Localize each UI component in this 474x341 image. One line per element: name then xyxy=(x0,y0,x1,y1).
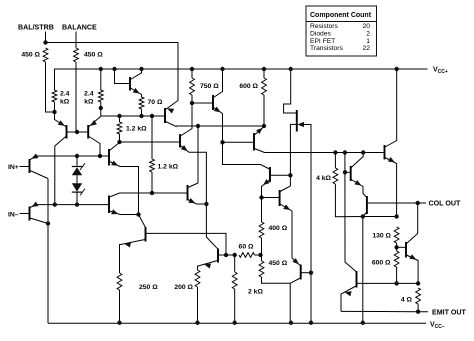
transistor Q22 base line xyxy=(357,282,397,284)
transistor Q13 emitter arrow xyxy=(256,128,263,134)
junction dot VCC- rail at 250 xyxy=(117,321,121,325)
transistor Q3 base leg xyxy=(115,69,130,84)
transistor Q8 emitter arrow xyxy=(111,161,118,166)
transistor Q18 emitter arrow xyxy=(355,180,362,186)
resistor R7 label xyxy=(158,164,179,171)
junction dot VCC+ rail at 600 ohm xyxy=(262,67,266,71)
junction dot VCC- rail at gate xyxy=(309,321,313,325)
label VCC+ xyxy=(433,67,448,76)
node BAL/STRB label xyxy=(18,24,54,32)
svg-text:Transistors: Transistors xyxy=(310,45,343,52)
wire diode top xyxy=(76,156,78,167)
svg-text:70 Ω: 70 Ω xyxy=(148,99,163,106)
svg-text:130 Ω: 130 Ω xyxy=(372,233,391,240)
junction dot Q21 emitter node xyxy=(394,214,398,218)
transistor Q17 emitter xyxy=(290,278,300,283)
svg-text:600 Ω: 600 Ω xyxy=(372,260,391,267)
transistor Q12 bar xyxy=(217,249,219,263)
transistor Q21 bar xyxy=(384,145,386,160)
transistor Q4 IN+ bar xyxy=(29,159,31,173)
transistor Q4 collector xyxy=(30,171,48,179)
wire BALANCE pin drop xyxy=(75,32,77,49)
wire 450 bottom corner xyxy=(262,277,291,283)
transistor Q11 emitter arrow xyxy=(188,198,195,203)
transistor Q19 emitter xyxy=(363,213,367,324)
transistor Q9 bar xyxy=(108,196,110,214)
resistor R16 label xyxy=(316,175,331,182)
resistor R4 2.4k body xyxy=(98,90,103,102)
junction dot Q18 base tap xyxy=(343,170,347,174)
svg-text:1.2 kΩ: 1.2 kΩ xyxy=(126,126,147,133)
transistor Q9 emitter xyxy=(110,211,139,215)
wire 4ohm bottom xyxy=(417,304,419,312)
resistor R9 label xyxy=(239,83,258,90)
transistor Q17 base xyxy=(301,272,311,274)
wire R11 bottom xyxy=(197,287,199,323)
junction dot VCC+ rail at 750 ohm xyxy=(190,67,194,71)
transistor Q17 feed xyxy=(292,258,300,266)
svg-text:22: 22 xyxy=(363,45,371,52)
wire 450 link xyxy=(261,255,263,261)
resistor R17 130 ohm body xyxy=(394,227,399,243)
fet Q16 drain lead xyxy=(284,69,297,113)
transistor Q22 bar xyxy=(356,271,358,288)
svg-text:IN–: IN– xyxy=(8,212,19,219)
diode D2 body xyxy=(72,183,85,195)
transistor Q17 feed arrow xyxy=(292,258,299,264)
transistor Q5 emitter arrow xyxy=(214,107,221,113)
transistor Q19 base xyxy=(367,202,417,204)
svg-text:1: 1 xyxy=(366,38,370,45)
transistor Q14 emitter xyxy=(262,180,270,198)
transistor Q13 bar xyxy=(253,133,255,151)
resistor R4 label xyxy=(84,91,94,106)
transistor Q21 emitter arrow xyxy=(388,157,395,163)
junction dot VCC- rail at Q19 emitter xyxy=(361,321,365,325)
wire 400 bottom xyxy=(261,238,263,255)
wire COL OUT drop xyxy=(417,203,419,234)
wire VCC+ rail xyxy=(55,69,428,90)
wire R1 bottom to balance node xyxy=(46,62,55,112)
resistor R19 label xyxy=(401,297,413,304)
transistor Q5i emitter xyxy=(30,205,37,208)
transistor Q8 emitter xyxy=(110,162,139,215)
junction dot 60ohm left xyxy=(233,253,237,257)
transistor Q2 collector xyxy=(89,137,100,157)
wire Q6 base line xyxy=(101,115,165,117)
node COL OUT label xyxy=(429,200,461,208)
junction dot 60ohm right xyxy=(258,253,262,257)
transistor Q1 emitter xyxy=(55,112,66,127)
svg-text:750 Ω: 750 Ω xyxy=(200,83,219,90)
svg-text:IN+: IN+ xyxy=(8,164,19,171)
wire y283 right xyxy=(397,282,419,284)
junction dot VCC- rail at Q17 xyxy=(289,321,293,325)
junction dot VCC+ rail at Q3 base leg xyxy=(112,67,116,71)
transistor Q18 emitter xyxy=(351,180,366,198)
wire diode bottom xyxy=(76,192,78,205)
transistor Q6 collector xyxy=(166,122,177,127)
transistor Q14 bar xyxy=(269,167,271,182)
junction dot VCC- rail at 2k xyxy=(233,321,237,325)
junction dot Q17 base xyxy=(309,271,313,275)
transistor Q13 base xyxy=(223,141,254,143)
resistor R9 600 ohm body xyxy=(262,78,267,95)
transistor Q22 emitter arrow xyxy=(345,291,352,296)
svg-text:2 kΩ: 2 kΩ xyxy=(248,289,263,296)
fet Q16 source lead xyxy=(290,124,296,175)
junction dot x291 node xyxy=(288,173,292,177)
svg-text:400 Ω: 400 Ω xyxy=(269,225,288,232)
transistor Q5i collector xyxy=(30,218,48,224)
junction dot balance-left node xyxy=(52,110,56,114)
resistor R13 2k body xyxy=(232,272,237,289)
junction dot Q5 base node xyxy=(190,101,194,105)
wire Q5i emitter line xyxy=(37,204,109,206)
wire IN+ collector drop xyxy=(47,179,49,324)
transistor Q9 emitter arrow xyxy=(111,209,118,214)
wire VCC- rail xyxy=(48,322,426,324)
wire EMIT OUT line xyxy=(341,310,428,312)
transistor Q20 bar xyxy=(405,242,407,258)
junction dot VCC+ rail at FET drain xyxy=(289,67,293,71)
transistor Q8 collector xyxy=(110,143,120,151)
transistor Q18 bar xyxy=(350,166,352,181)
svg-text:EPI FET: EPI FET xyxy=(310,38,335,45)
transistor Q14 base xyxy=(271,174,291,176)
fet Q16 channel bar xyxy=(296,110,298,132)
svg-text:Diodes: Diodes xyxy=(310,31,331,38)
resistor R12 60 ohm body xyxy=(239,253,255,258)
transistor Q17 bar xyxy=(300,265,302,280)
junction dot Q2 collector node xyxy=(98,154,102,158)
transistor Q6 emitter arrow xyxy=(167,108,174,113)
wire R7 bottom xyxy=(151,172,153,193)
transistor Q3 emitter xyxy=(131,88,142,97)
wire x345 column xyxy=(345,153,356,272)
svg-text:450 Ω: 450 Ω xyxy=(84,52,103,59)
svg-text:2: 2 xyxy=(366,31,370,38)
resistor R14 label xyxy=(269,225,288,232)
resistor R1 450 ohm body xyxy=(43,48,48,62)
transistor Q18 base xyxy=(345,171,350,173)
transistor Q11 bar xyxy=(187,185,189,201)
resistor R10 250 ohm body xyxy=(117,273,122,290)
resistor R2 label xyxy=(84,52,103,59)
wire Q7 base line xyxy=(120,141,180,143)
svg-text:Resistors: Resistors xyxy=(310,23,339,30)
resistor R18 600 ohm body xyxy=(394,251,399,267)
junction dot diode bottom xyxy=(75,202,79,206)
node IN+ label xyxy=(8,164,19,171)
resistor R6 1.2k body xyxy=(117,122,122,134)
svg-text:COL OUT: COL OUT xyxy=(429,200,461,208)
junction dot Q14 base node xyxy=(259,195,263,199)
transistor Q5 collector xyxy=(214,69,223,98)
junction dot 4ohm top xyxy=(416,281,420,285)
transistor Q10 base xyxy=(146,233,226,255)
svg-text:600 Ω: 600 Ω xyxy=(239,83,258,90)
junction dot balance-right node xyxy=(99,106,103,110)
junction dot x345 top xyxy=(343,150,347,154)
transistor Q11 emitter xyxy=(188,200,206,205)
transistor Q5 emitter xyxy=(214,108,223,127)
wire y152 long line xyxy=(265,152,385,154)
wire 600a top xyxy=(263,69,265,78)
wire Q6 collector line y126 xyxy=(176,125,264,127)
transistor Q1 mirror-left bar xyxy=(66,125,68,139)
svg-text:20: 20 xyxy=(363,23,371,30)
wire R5 bottom xyxy=(141,109,143,116)
transistor Q22 emitter xyxy=(341,286,356,311)
wire R4 bottom xyxy=(100,102,102,108)
junction dot y126 x198 xyxy=(196,124,200,128)
transistor Q2 emitter xyxy=(89,108,101,127)
transistor Q7 emitter arrow xyxy=(181,145,188,151)
svg-text:4 kΩ: 4 kΩ xyxy=(316,175,331,182)
wire strobe drop x198 xyxy=(197,126,199,183)
resistor R12 label xyxy=(239,244,254,251)
transistor Q1 emitter arrow xyxy=(58,120,65,126)
junction dot 1.2k R6 top xyxy=(117,114,121,118)
junction dot diode top xyxy=(75,154,79,158)
wire BAL/STRB pin drop xyxy=(45,32,47,43)
transistor Q5i IN- bar xyxy=(29,207,31,221)
transistor Q2 mirror-right bar xyxy=(87,125,89,139)
transistor Q10 bar xyxy=(145,227,147,242)
transistor Q14 emitter arrow xyxy=(263,179,270,185)
junction dot VCC+ rail at 2.4k R4 xyxy=(99,67,103,71)
junction dot Q1 collector join xyxy=(53,202,57,206)
transistor Q21 emitter xyxy=(385,158,397,217)
resistor R7 1.2k body xyxy=(150,159,155,172)
resistor R6 label xyxy=(126,126,147,133)
junction dot R7 bottom xyxy=(150,191,154,195)
svg-text:Component Count: Component Count xyxy=(310,12,372,19)
wire diode mid xyxy=(76,175,78,183)
transistor Q3 bar xyxy=(129,77,131,91)
transistor Q3 emitter arrow xyxy=(133,88,140,94)
table component count xyxy=(306,6,377,56)
svg-text:1.2 kΩ: 1.2 kΩ xyxy=(158,164,179,171)
svg-text:450 Ω: 450 Ω xyxy=(269,260,288,267)
junction dot 600ohm bottom xyxy=(262,124,266,128)
transistor Q13 emitter xyxy=(255,127,265,136)
wire strobe rail to Q6 emitter xyxy=(46,43,179,101)
resistor R19 4 ohm body xyxy=(416,288,421,304)
transistor Q1 base xyxy=(67,131,77,133)
transistor Q8 bar xyxy=(108,149,110,166)
wire R10 bottom xyxy=(119,290,121,323)
resistor R5 label xyxy=(148,99,163,106)
svg-text:kΩ: kΩ xyxy=(84,99,94,106)
junction dot VCC+ rail at Q3 collector xyxy=(139,67,143,71)
transistor Q10 emitter arrow xyxy=(124,242,131,247)
transistor Q4 base wire xyxy=(20,166,30,168)
transistor Q10 collector xyxy=(139,215,146,228)
transistor Q6 emitter xyxy=(166,101,179,110)
transistor Q7 collector xyxy=(181,103,193,136)
transistor Q7 emitter xyxy=(181,146,218,249)
svg-text:2.4: 2.4 xyxy=(60,91,70,98)
wire 750 bottom xyxy=(191,95,193,103)
transistor Q2 emitter arrow xyxy=(90,120,97,126)
wire 600a bottom xyxy=(263,95,265,126)
wire 4k bottom xyxy=(335,184,362,217)
transistor Q11 collector xyxy=(188,183,198,188)
resistor R8 750 ohm body xyxy=(190,78,195,95)
transistor Q1 collector xyxy=(55,137,66,205)
transistor Q5 bar xyxy=(212,95,214,110)
transistor Q12 base xyxy=(219,254,227,256)
transistor Q5i emitter arrow xyxy=(31,202,38,207)
svg-text:BAL/STRB: BAL/STRB xyxy=(18,24,54,32)
transistor Q6 bar xyxy=(164,108,166,123)
resistor R17 label xyxy=(372,233,391,240)
transistor Q19 bar xyxy=(366,196,368,214)
wire R6 bottom xyxy=(119,134,121,142)
wire 400 top xyxy=(261,198,263,223)
svg-text:EMIT OUT: EMIT OUT xyxy=(432,308,467,316)
wire 2.4k R4 top xyxy=(100,69,102,90)
junction dot Q12 base xyxy=(224,253,228,257)
resistor R3 label xyxy=(60,91,70,106)
transistor Q20 base xyxy=(397,246,406,248)
resistor R13 label xyxy=(248,289,263,296)
wire y216 link xyxy=(363,216,397,218)
resistor R11 200 ohm body xyxy=(195,270,200,287)
svg-text:BALANCE: BALANCE xyxy=(62,24,97,32)
junction dot Q7 base line left xyxy=(117,140,121,144)
junction dot 1.2k R7 top xyxy=(150,114,154,118)
wire 600b top xyxy=(396,247,398,251)
resistor R1 label xyxy=(21,52,40,59)
svg-text:2.4: 2.4 xyxy=(84,91,94,98)
resistor R3 2.4k body xyxy=(52,90,57,102)
transistor Q20 collector xyxy=(407,234,418,244)
node IN- label xyxy=(8,212,19,219)
junction dot EMIT OUT xyxy=(416,310,420,314)
wire Q4 emitter line xyxy=(37,155,109,157)
junction dot QC base node xyxy=(220,140,224,144)
junction dot COL OUT xyxy=(416,201,420,205)
junction dot mirror base node xyxy=(75,130,79,134)
svg-text:60 Ω: 60 Ω xyxy=(239,244,254,251)
node BALANCE label xyxy=(62,24,97,32)
junction dot Q19 emitter xyxy=(361,214,365,218)
transistor Q15 base xyxy=(262,197,280,199)
wire 130 link xyxy=(396,243,398,247)
transistor Q3 collector xyxy=(131,69,142,80)
transistor Q13 collector xyxy=(255,149,265,153)
resistor R15 label xyxy=(269,260,288,267)
resistor R14 400 ohm body xyxy=(259,222,264,238)
junction dot Q10 collector node xyxy=(136,212,140,216)
junction dot input collectors xyxy=(46,221,50,225)
wire R2 bottom to mirror base node xyxy=(75,62,77,132)
node VCC- label xyxy=(430,322,445,331)
wire 2k top xyxy=(234,255,236,272)
svg-text:4 Ω: 4 Ω xyxy=(401,297,413,304)
transistor Q14 collector feed xyxy=(223,142,270,169)
transistor Q15 emitter xyxy=(280,204,292,258)
wire base link xyxy=(226,254,235,256)
resistor R18 label xyxy=(372,260,391,267)
transistor Q12 emitter xyxy=(198,261,218,271)
transistor Q7 bar xyxy=(179,134,181,148)
transistor Q18 collector xyxy=(351,153,363,168)
junction dot Q18 collector xyxy=(361,150,365,154)
transistor Q2 base xyxy=(77,131,88,133)
diode D1 body xyxy=(72,163,85,175)
wire Q17 emitter drop xyxy=(289,283,291,323)
junction dot VCC+ rail at Q21 collector xyxy=(395,67,399,71)
wire 750 top xyxy=(191,69,193,78)
node EMIT OUT label xyxy=(432,308,467,316)
resistor R15 450 ohm body xyxy=(259,261,264,277)
svg-text:450 Ω: 450 Ω xyxy=(21,52,40,59)
transistor Q15 bar xyxy=(279,190,281,206)
wire 4k top xyxy=(334,153,336,169)
transistor Q20 emitter arrow xyxy=(409,254,416,260)
fet Q16 gate lead xyxy=(304,125,312,324)
transistor Q5 base xyxy=(192,102,213,104)
svg-text:kΩ: kΩ xyxy=(60,99,70,106)
wire y193 line xyxy=(120,192,188,194)
transistor Q10 emitter xyxy=(120,240,146,274)
transistor Q4 emitter xyxy=(30,156,37,159)
wire R13 bottom xyxy=(234,289,236,323)
resistor R10 label xyxy=(139,284,158,291)
resistor R5 70 ohm body xyxy=(139,97,144,109)
wire Q5 emitter to QC base node xyxy=(222,126,224,142)
transistor Q15 collector xyxy=(280,175,290,191)
transistor Q9 collector xyxy=(110,193,120,197)
wire 600b bottom xyxy=(396,267,398,283)
resistor R2 450 ohm body xyxy=(74,48,79,62)
junction dot Q11 emitter join xyxy=(204,202,208,206)
transistor Q4 emitter arrow xyxy=(31,154,38,159)
wire R7 top xyxy=(151,116,153,159)
junction dot BAL/STRB node xyxy=(43,40,47,44)
junction dot VCC+ rail at Q5 collector xyxy=(220,67,224,71)
transistor Q21 collector xyxy=(385,69,397,147)
resistor R8 label xyxy=(200,83,219,90)
transistor Q12 emitter arrow xyxy=(204,264,211,269)
wire R3 bottom xyxy=(54,102,56,112)
transistor Q5i base wire xyxy=(20,213,30,215)
resistor R16 4k body xyxy=(333,168,338,184)
resistor R11 label xyxy=(174,284,193,291)
wire R6 top xyxy=(119,116,121,122)
wire COL OUT stub xyxy=(418,202,426,204)
svg-text:200 Ω: 200 Ω xyxy=(174,284,193,291)
junction dot 600b bottom xyxy=(394,281,398,285)
svg-text:250 Ω: 250 Ω xyxy=(139,284,158,291)
junction dot 70ohm join xyxy=(139,114,143,118)
junction dot Q20 base node xyxy=(394,245,398,249)
junction dot VCC- rail at 200 xyxy=(195,321,199,325)
wire 60ohm right xyxy=(255,254,261,256)
transistor Q15 emitter arrow xyxy=(283,204,290,210)
fet Q16 gate arrow xyxy=(297,122,304,127)
junction dot 4k top xyxy=(333,150,337,154)
transistor Q20 emitter xyxy=(407,255,419,283)
